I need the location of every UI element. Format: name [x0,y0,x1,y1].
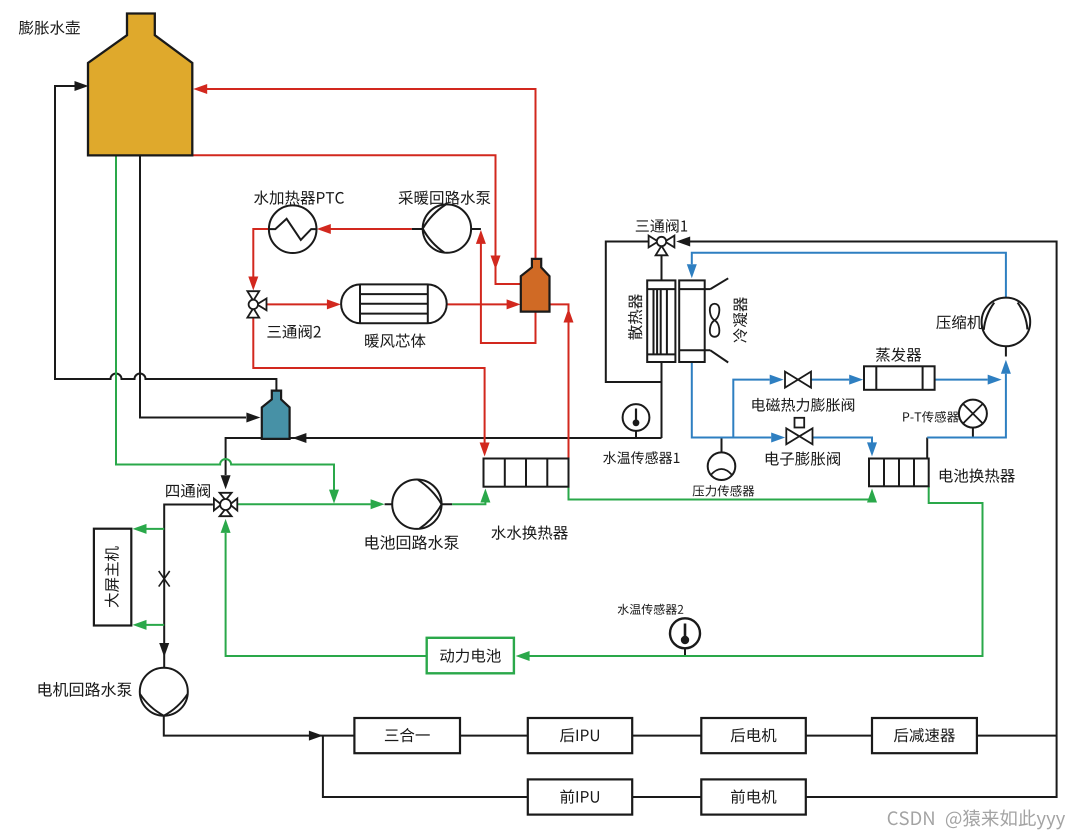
wire: main coolant line y=438 from radiator to bottle and down to four-way valve [226,438,662,475]
compressor 压缩机 [982,298,1031,347]
label 采暖回路水泵 [399,190,491,204]
wire(blue): evaporator outlet to compressor riser [935,379,988,381]
wire(green): screen host top stub [146,528,164,530]
wire: expansion tank bottom black drop to deaeration bottle left port [140,155,246,417]
wire: heater pump stubs [412,228,481,230]
label 冷凝器 (rotated) [733,297,747,342]
label 压力传感器 [693,485,755,497]
wire: motor pump outlet to junction and 三合一 [164,716,355,736]
water temp sensor2 水温传感器2 [670,618,700,648]
wire(blue): condenser bottom down, right to electronic expansion valve [692,362,771,438]
wire(red): heater core to heater tank left port [447,303,507,305]
radiator 散热器 [647,280,675,362]
deaeration bottle (teal) [262,391,290,439]
wire: compressor bottom stub [1005,346,1007,356]
wire(red): expansion tank bottom right to heater tank upper-left port [192,155,521,284]
wire: three-way valve1 left U-loop to radiator bottom [606,242,662,383]
motor circuit pump 电机回路水泵 [140,668,188,716]
wire: rear reducer to right trunk [977,735,1057,737]
condenser fan [710,304,719,337]
heater circuit pump 采暖回路水泵 [423,204,471,252]
label 水温传感器1 [603,451,679,464]
wire(red): heater tank top up and left into expansion tank [207,89,536,259]
wire(green): water-water HX bottom-right to battery chiller bottom-left [569,487,873,500]
wire: pressure sensor stub [721,438,723,453]
wire(red): heater pump to PTC [328,228,411,230]
wire: battery chiller top-right stub [926,438,928,459]
P-T sensor [959,400,987,428]
wire: four-way valve left line down past screen host to motor pump [164,505,213,668]
label 前电机 [731,789,776,803]
label 三通阀1 [636,219,687,233]
water-water HX 水水换热器 [484,459,569,487]
label 水温传感器2 [618,604,684,615]
label 后IPU [560,728,599,742]
electronic expansion valve 电子膨胀阀 [786,418,812,445]
wire(blue): e-valve to battery chiller top-left [813,438,873,443]
wire(green): four-way valve right to battery pump [237,503,371,505]
wire(blue): branch up to electromagnetic expansion valve [733,380,769,438]
wire(red): valve2 to heater core [267,303,328,305]
label 电机回路水泵 [39,682,132,697]
label 电子膨胀阀 [766,451,840,465]
bottom boxes [354,718,460,753]
wire(green): battery pump to water-water HX bottom-left [452,503,485,505]
label 大屏主机 (rotated) [105,546,119,607]
label 电池换热器 [940,468,1015,482]
heater core 暖风芯体 [341,284,447,323]
label 散热器 (rotated) [628,294,642,339]
small shut valve X on screen host line [159,571,170,587]
expansion tank 膨胀水壶 [88,14,192,156]
water heater PTC circle with zigzag [269,205,317,253]
wire(red): water-water HX top-right up to heater tank right port [550,304,569,458]
wire: water temp sensor2 stub [684,648,686,656]
wire: water temp sensor1 stub [635,431,637,438]
screen host box 大屏主机 [94,529,131,626]
label 三合一 [385,728,430,742]
label 三通阀2 [267,325,320,339]
wire(red): valve2 bottom loop to water-water HX top-left [253,318,484,443]
label 蒸发器 [876,347,921,361]
wire: three-way valve1 right line, down right side to motor boxes [689,242,1057,798]
label 四通阀 [166,484,210,498]
label 前IPU [560,789,599,803]
wire(green): screen host bottom stub [146,624,164,626]
heater loop tank (orange bottle) [521,259,550,312]
wire: junction down to front IPU row [323,736,528,797]
label P-T传感器 [903,411,959,423]
label 后电机 [731,728,777,742]
label 后减速器 [894,728,955,742]
wire(blue): em-valve to evaporator [811,379,849,381]
four-way valve 四通阀 [214,493,237,516]
condenser 冷凝器 [679,278,728,362]
wire: battery pump stubs [385,503,453,505]
pressure sensor 压力传感器 [708,452,736,480]
label 水水换热器 [491,525,567,539]
electromagnetic thermal expansion valve 电磁热力膨胀阀 [785,372,811,388]
wire(green): expansion tank green drop, hops black line, to battery pump line [116,155,334,490]
wire(blue): compressor top to condenser top [692,253,1006,298]
power battery box 动力电池 [427,638,514,674]
label 电池回路水泵 [366,535,459,550]
water temp sensor1 水温传感器1 [623,404,650,431]
wire: expansion tank inlet from motor loop, hops over two drop lines, down to deaeration bottle neck [55,86,276,391]
wire: box row links [460,736,872,797]
battery chiller HX 电池换热器 [869,459,929,487]
wire: radiator bottom stub [661,362,663,438]
label 暖风芯体 [365,333,425,347]
label 电磁热力膨胀阀 [752,398,854,412]
watermark CSDN [888,809,1065,829]
three-way valve1 三通阀1 [649,236,675,256]
wire: P-T sensor stub [972,428,974,438]
label 压缩机 [936,315,982,329]
wire(red): heater tank bottom U to heater pump inlet [481,244,536,344]
label 膨胀水壶 [19,20,80,34]
evaporator 蒸发器 [864,366,935,390]
wire(green): battery chiller bottom-right down and left to power battery [529,486,982,656]
label 水加热器PTC [254,190,344,204]
wire(blue): chiller outlet line up to compressor suction [927,374,1006,438]
wire: three-way valve1 bottom stub to radiator top [661,255,663,280]
battery circuit pump 电池回路水泵 [392,480,441,529]
three-way valve2 三通阀2 [247,291,266,317]
label 动力电池 [440,649,501,663]
wire(green): power battery left to four-way valve bottom [226,533,427,656]
arrowheads [75,81,89,91]
wire(red): PTC left elbow down to three-way valve2 [253,229,269,277]
